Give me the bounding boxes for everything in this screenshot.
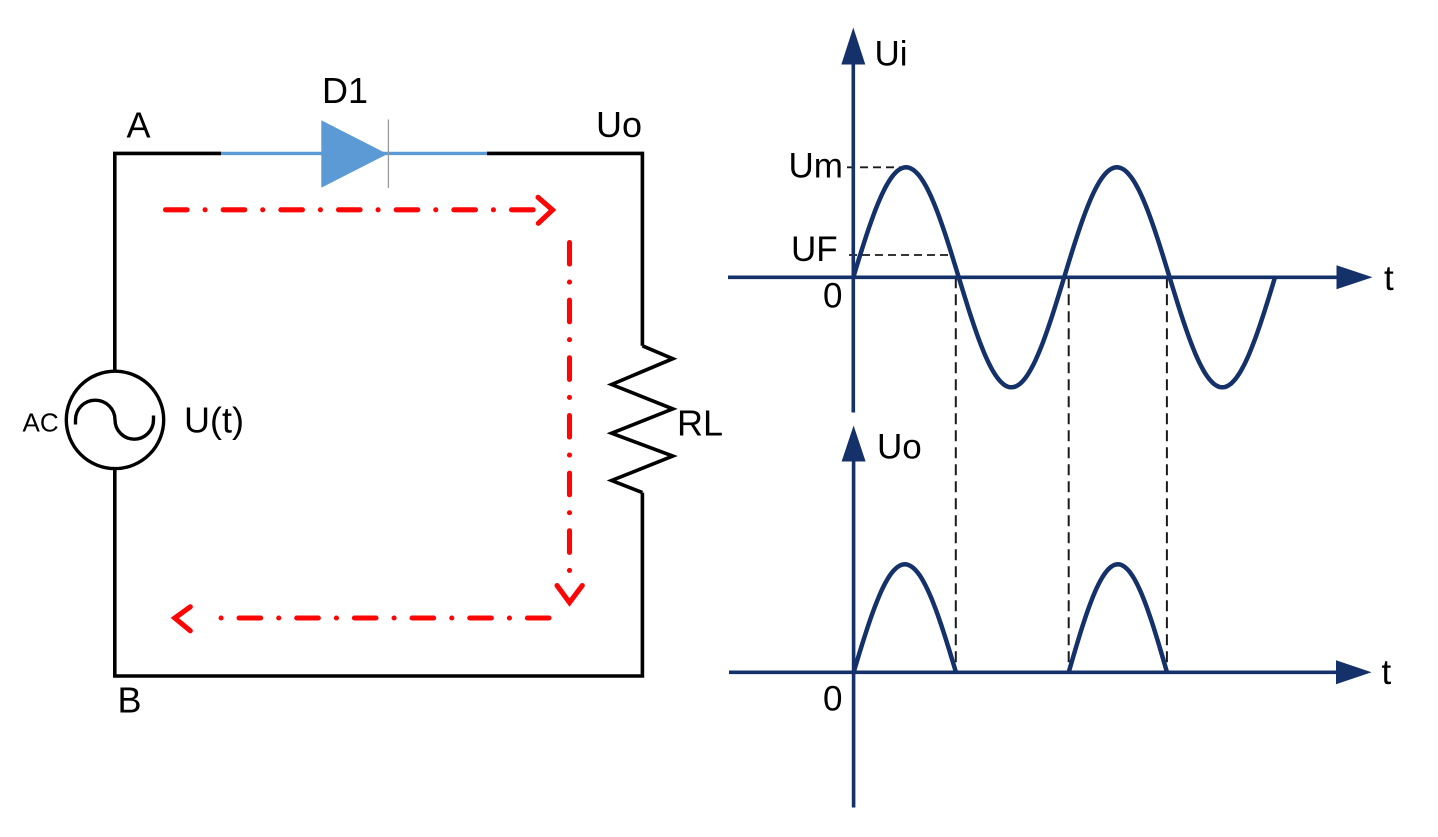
svg-text:A: A — [127, 105, 151, 146]
svg-text:Um: Um — [789, 147, 843, 186]
svg-text:Uo: Uo — [596, 104, 642, 145]
svg-text:t: t — [1384, 259, 1394, 298]
svg-text:t: t — [1382, 653, 1392, 692]
svg-text:0: 0 — [823, 680, 842, 719]
svg-text:0: 0 — [823, 277, 842, 316]
svg-text:AC: AC — [23, 408, 59, 438]
svg-text:B: B — [118, 680, 142, 721]
svg-text:Ui: Ui — [875, 35, 908, 74]
svg-text:D1: D1 — [322, 70, 368, 111]
svg-text:Uo: Uo — [877, 428, 922, 467]
svg-text:RL: RL — [677, 403, 723, 444]
svg-text:U(t): U(t) — [184, 400, 244, 441]
svg-text:UF: UF — [791, 230, 838, 269]
